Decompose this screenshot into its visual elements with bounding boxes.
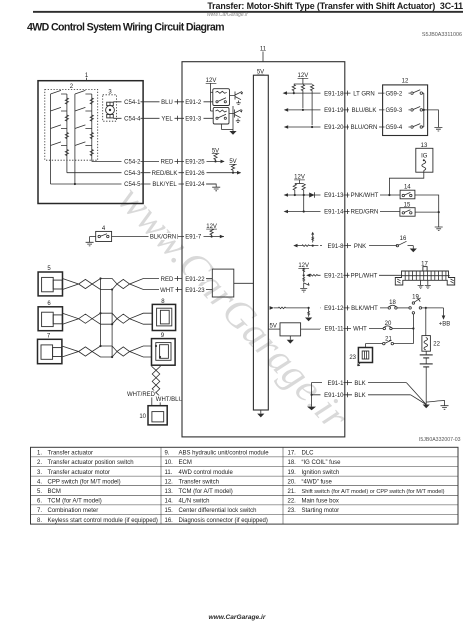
twisted pair row 7 [62, 346, 152, 357]
svg-text:11.: 11. [165, 470, 173, 476]
svg-text:E91-25: E91-25 [185, 160, 205, 166]
svg-text:www.CarGarage.ir: www.CarGarage.ir [209, 614, 266, 621]
wire E91-1 BLK [320, 379, 426, 404]
wire label WHT/BLU [155, 395, 183, 403]
shift switch 21 [365, 336, 413, 347]
wire WHT to E91-23 [159, 286, 207, 294]
svg-text:BLU/BLK: BLU/BLK [352, 108, 377, 114]
svg-text:TCM (for A/T model): TCM (for A/T model) [48, 499, 102, 505]
center differential lock switch 16 [396, 236, 417, 252]
TCM connector 6 [38, 301, 62, 331]
svg-text:10: 10 [139, 414, 146, 420]
svg-text:Transfer: Motor-Shift Type (Tr: Transfer: Motor-Shift Type (Transfer wit… [207, 1, 463, 11]
IG COIL fuse 13 [388, 143, 433, 196]
CPP switch S4 [90, 226, 112, 243]
svg-text:ECM: ECM [179, 460, 192, 466]
svg-text:5V: 5V [229, 159, 236, 165]
svg-text:RED: RED [161, 277, 174, 283]
svg-text:BLK/YEL: BLK/YEL [152, 182, 177, 188]
svg-text:Starting motor: Starting motor [302, 508, 340, 514]
svg-text:7.: 7. [37, 508, 42, 514]
svg-text:RED/BLK: RED/BLK [152, 171, 178, 177]
svg-text:10.: 10. [165, 460, 174, 466]
wire C54-5 BLK/YEL to E91-24 [51, 181, 217, 189]
svg-text:E91-22: E91-22 [185, 277, 205, 283]
svg-text:Ignition switch: Ignition switch [302, 470, 340, 476]
svg-text:5V: 5V [270, 323, 277, 329]
svg-text:22.: 22. [288, 499, 297, 505]
svg-text:20.: 20. [288, 479, 297, 485]
svg-text:Transfer actuator: Transfer actuator [48, 451, 93, 457]
E91-12 input network [270, 306, 313, 321]
svg-text:23.: 23. [288, 508, 297, 514]
svg-text:S5JB0A3311006: S5JB0A3311006 [422, 32, 462, 38]
ladder B switch contacts [75, 90, 92, 145]
svg-text:C54-3: C54-3 [124, 171, 141, 177]
svg-text:PNK: PNK [354, 244, 366, 250]
ground under switch 4 [86, 242, 94, 246]
svg-text:RED/GRN: RED/GRN [351, 210, 379, 216]
wire E91-14 RED/GRN [284, 208, 400, 216]
svg-text:BLK/ORN: BLK/ORN [150, 235, 176, 241]
ladder A switch contacts [51, 90, 67, 145]
battery [420, 351, 433, 404]
svg-text:4WD Control System Wiring Circ: 4WD Control System Wiring Circuit Diagra… [27, 22, 224, 34]
+BB feed arrow [439, 308, 451, 328]
E91-24 internal ground [206, 184, 220, 191]
ECM connector 10 [139, 406, 167, 425]
starting motor 23 [349, 348, 372, 366]
pull-up resistor E91-13 [293, 184, 296, 196]
svg-text:TCM (for A/T model): TCM (for A/T model) [179, 489, 233, 495]
transfer switch ground lead [424, 110, 443, 131]
twisted pair down from 9 [152, 365, 160, 406]
svg-text:E91-8: E91-8 [327, 244, 344, 250]
svg-text:PNK/WHT: PNK/WHT [351, 193, 379, 199]
svg-text:DLC: DLC [302, 451, 315, 457]
combination meter connector 7 [38, 334, 62, 364]
svg-text:5V: 5V [257, 70, 264, 76]
wire E91-12 BLK/WHT [320, 305, 388, 313]
svg-text:G59-4: G59-4 [386, 125, 403, 131]
svg-text:E91-7: E91-7 [185, 235, 202, 241]
svg-text:21.: 21. [288, 489, 297, 495]
svg-text:YEL: YEL [161, 117, 173, 123]
svg-text:Transfer switch: Transfer switch [179, 479, 219, 485]
wire E91-18 LT GRN to G59-2 [283, 90, 410, 98]
svg-text:13.: 13. [165, 489, 174, 495]
svg-text:6.: 6. [37, 499, 42, 505]
svg-text:15: 15 [404, 202, 411, 208]
svg-text:www.CarGarage.ir: www.CarGarage.ir [207, 12, 248, 18]
ladder A resistors [65, 98, 68, 156]
12V feed for E91-13/14 [294, 175, 305, 184]
svg-text:8.: 8. [37, 518, 42, 524]
main fuse box 22 [422, 308, 441, 351]
wire E91-10 BLK [320, 392, 426, 405]
wire E91-11 WHT [320, 325, 383, 333]
4WD IG fuse 18 [388, 300, 409, 309]
svg-text:I5JB0A332007-03: I5JB0A332007-03 [419, 437, 461, 443]
svg-text:E91-21: E91-21 [324, 274, 344, 280]
relay common ground [222, 106, 237, 135]
pull-up resistor E91-20 [311, 85, 314, 129]
keyless start control module connector 8 [152, 299, 175, 331]
relay K2 driver transistor [229, 110, 243, 123]
transfer switch contact G59-4 [411, 124, 424, 129]
TCM shift switch 14 [400, 185, 439, 212]
svg-text:12.: 12. [165, 479, 174, 485]
svg-text:23: 23 [349, 355, 356, 361]
transfer actuator position switch S2 (dashed) [45, 84, 98, 160]
diode D1 on E91-13 [309, 192, 314, 197]
svg-text:3.: 3. [37, 470, 42, 476]
svg-text:9.: 9. [165, 451, 170, 457]
svg-text:RED: RED [161, 160, 174, 166]
svg-text:E91-23: E91-23 [185, 288, 205, 294]
svg-text:Transfer actuator position swi: Transfer actuator position switch [48, 460, 134, 466]
svg-text:WHT: WHT [353, 327, 367, 333]
svg-text:Center differential lock switc: Center differential lock switch [179, 508, 257, 514]
twisted pair row 5 [63, 279, 183, 290]
svg-text:“4WD” fuse: “4WD” fuse [302, 479, 333, 485]
svg-text:E91-18: E91-18 [324, 91, 344, 97]
relay K1 driver transistor [230, 92, 244, 105]
pull-up resistor E91-14 [302, 184, 305, 213]
svg-text:BLK: BLK [354, 393, 365, 399]
position switch ladder A rails [51, 94, 67, 184]
svg-text:IG: IG [421, 154, 428, 160]
svg-text:+BB: +BB [439, 321, 451, 327]
svg-text:C54-2: C54-2 [124, 160, 141, 166]
wire BLK/ORN to E91-7 [112, 233, 224, 241]
svg-text:16.: 16. [165, 518, 174, 524]
svg-text:E91-12: E91-12 [324, 306, 344, 312]
DLC 17 [395, 262, 454, 289]
svg-text:4L/N switch: 4L/N switch [179, 499, 210, 505]
svg-text:E91-19: E91-19 [324, 108, 344, 114]
svg-text:E91-20: E91-20 [324, 125, 344, 131]
wire C54-1 BLU to E91-2 [113, 98, 213, 106]
svg-text:E91-26: E91-26 [185, 171, 205, 177]
svg-text:PPL/WHT: PPL/WHT [351, 274, 378, 280]
svg-text:BLU: BLU [161, 100, 173, 106]
E91-8 sense network [293, 232, 318, 248]
E91-26 pull-up to 5V [229, 159, 241, 175]
wire E91-21 PPL/WHT [320, 272, 402, 280]
transfer switch contact G59-2 [411, 90, 424, 95]
4L/N switch 15 [400, 202, 443, 230]
4WD control module U11 box [182, 47, 345, 437]
svg-text:Shift switch (for A/T model) o: Shift switch (for A/T model) or CPP swit… [302, 489, 445, 495]
svg-text:E91-1: E91-1 [327, 381, 344, 387]
pull-up resistor E91-18 [292, 85, 295, 95]
pull-up resistor E91-19 [301, 85, 304, 111]
svg-text:Combination meter: Combination meter [48, 508, 99, 514]
svg-text:Main fuse box: Main fuse box [302, 499, 339, 505]
relay driver 12V feed [206, 78, 217, 111]
ladder B resistors [90, 98, 93, 156]
position switch ladder B rails [75, 94, 92, 184]
svg-text:14: 14 [404, 185, 411, 191]
svg-text:“IG COIL” fuse: “IG COIL” fuse [302, 460, 342, 466]
svg-text:2.: 2. [37, 460, 42, 466]
E91-1 E91-10 internal ground [307, 383, 320, 411]
wire C54-3 RED/BLK to E91-26 [67, 169, 241, 177]
wire E91-19 BLU/BLK to G59-3 [284, 107, 410, 115]
svg-text:14.: 14. [165, 499, 174, 505]
ignition switch 19 [409, 295, 444, 314]
svg-text:Diagnosis connector (if equipp: Diagnosis connector (if equipped) [179, 518, 268, 524]
svg-text:E91-14: E91-14 [324, 210, 344, 216]
svg-text:E91-11: E91-11 [325, 327, 345, 333]
svg-text:BLU/ORN: BLU/ORN [351, 125, 378, 131]
12V feed for E91-18/19/20 [294, 73, 312, 84]
svg-text:BLK/WHT: BLK/WHT [351, 306, 378, 312]
E91-21 output driver [298, 263, 320, 292]
svg-text:G59-2: G59-2 [386, 91, 403, 97]
wire RED to E91-22 [159, 275, 207, 283]
svg-text:19.: 19. [288, 470, 297, 476]
motor relay K1 [213, 89, 230, 106]
svg-text:15.: 15. [165, 508, 174, 514]
svg-text:5.: 5. [37, 489, 42, 495]
wire E91-20 BLU/ORN to G59-4 [284, 124, 410, 132]
E91-25 pull-up to 5V [212, 148, 225, 163]
svg-text:12: 12 [402, 78, 409, 84]
svg-text:18.: 18. [288, 460, 297, 466]
motor relay K2 [213, 107, 229, 124]
svg-text:C54-4: C54-4 [124, 117, 141, 123]
svg-text:1.: 1. [37, 451, 42, 457]
svg-text:22: 22 [433, 342, 440, 348]
svg-text:WHT/RED: WHT/RED [127, 392, 156, 398]
E91-22 E91-23 input block [206, 269, 253, 297]
svg-text:E91-2: E91-2 [185, 100, 202, 106]
header rule [33, 11, 463, 13]
svg-text:C54-1: C54-1 [124, 100, 141, 106]
svg-text:LT GRN: LT GRN [353, 91, 374, 97]
wire label WHT/RED [127, 390, 156, 398]
svg-text:Keyless start control module (: Keyless start control module (if equippe… [48, 518, 158, 524]
E91-7 pull-up to 12V [206, 224, 224, 239]
svg-text:WHT/BLU: WHT/BLU [156, 397, 183, 403]
BCM connector 5 [38, 266, 62, 296]
svg-text:G59-3: G59-3 [386, 108, 403, 114]
chassis ground node [423, 401, 449, 410]
ABS hydraulic unit connector 9 [152, 333, 176, 365]
transfer actuator motor M3 (dashed) [103, 89, 117, 121]
wire E91-13 PNK/WHT [284, 192, 401, 200]
svg-text:CPP switch (for M/T model): CPP switch (for M/T model) [48, 479, 121, 485]
svg-text:E91-24: E91-24 [185, 182, 205, 188]
transfer actuator U1 box [38, 73, 143, 204]
wire E91-8 PNK [320, 242, 397, 250]
wire C54-4 YEL to E91-3 [113, 115, 213, 123]
svg-text:BLK: BLK [354, 381, 365, 387]
svg-text:WHT: WHT [160, 288, 174, 294]
svg-text:4WD control module: 4WD control module [179, 470, 234, 476]
wire C54-2 RED to E91-25 [92, 158, 224, 166]
4WD fuse 20 [383, 314, 414, 344]
svg-text:E91-3: E91-3 [185, 117, 202, 123]
svg-text:C54-5: C54-5 [124, 182, 141, 188]
svg-text:4.: 4. [37, 479, 42, 485]
svg-text:E91-13: E91-13 [324, 193, 344, 199]
E91-11 5V reference block [268, 323, 320, 344]
transfer switch contact G59-3 [411, 107, 424, 112]
svg-text:Transfer actuator motor: Transfer actuator motor [48, 470, 110, 476]
svg-text:13: 13 [421, 143, 428, 149]
svg-text:5V: 5V [212, 148, 219, 154]
svg-text:12V: 12V [206, 78, 217, 84]
svg-text:17.: 17. [288, 451, 297, 457]
legend table [31, 447, 459, 524]
svg-text:BCM: BCM [48, 489, 61, 495]
svg-text:ABS hydraulic unit/control mod: ABS hydraulic unit/control module [179, 451, 270, 457]
svg-text:E91-10: E91-10 [324, 393, 344, 399]
5V supply bus bar [253, 70, 268, 418]
transfer switch 12 box [383, 78, 428, 135]
twisted pair bus rails [99, 277, 113, 358]
transfer switch common rail [423, 93, 425, 127]
twisted pair row 6 [63, 313, 153, 324]
